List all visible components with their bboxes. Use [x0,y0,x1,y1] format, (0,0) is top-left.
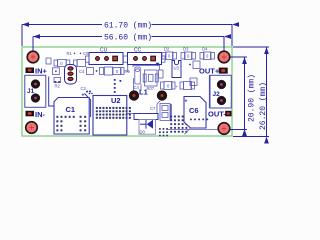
resistor R1 footprint [54,59,70,66]
dimension 26.20 (mm) vertical [233,47,269,137]
svg-text:C1: C1 [66,105,76,114]
svg-text:CC: CC [134,48,142,54]
capacitor C5 footprint [159,70,164,78]
resistor R07 [143,70,158,86]
diode D0 [139,120,156,135]
node diamond [75,98,78,101]
trimmer CU [89,53,123,65]
mounting hole top-left [27,51,39,63]
wire CC to C4 [127,65,129,73]
svg-text:IN+: IN+ [35,67,48,76]
svg-text:J2: J2 [213,91,221,98]
svg-text:U3: U3 [174,66,180,71]
svg-text:J1: J1 [27,88,35,95]
via grid A [170,116,187,133]
svg-text:C0: C0 [83,51,89,56]
svg-text:61.70 (mm): 61.70 (mm) [104,21,152,30]
capacitor C8 footprint [189,61,200,69]
node net flag [156,63,160,66]
svg-text:CU: CU [100,48,108,54]
mounting hole bottom-right [218,123,230,135]
svg-text:R9: R9 [125,69,131,74]
wire net top-mid [133,66,160,92]
resistor R5 footprint [161,82,176,90]
node vias pair [86,91,88,93]
capacitor C9 footprint [180,82,195,90]
capacitor C7 footprint [160,104,171,122]
svg-text:C2: C2 [81,86,87,91]
svg-text:IN-: IN- [35,110,46,119]
dimension 56.60 (mm) [33,37,224,52]
marker OUT- [225,111,231,117]
wire C1 to U2 [85,94,91,118]
svg-text:OUT+: OUT+ [199,67,220,76]
svg-text:C7: C7 [150,106,156,111]
dimension 20.90 (mm) vertical [229,57,247,130]
resistor R8 footprint [190,78,197,86]
svg-text:OUT-: OUT- [208,110,226,119]
capacitor C4 [135,67,141,84]
connector J1 [25,75,46,107]
via column [114,79,122,93]
U2 thermal via grid [96,107,131,119]
svg-text:D4: D4 [202,47,208,52]
trimmer CC [128,53,162,65]
inductor L1 pad right [157,91,167,101]
IC U2 [93,96,127,136]
marker OUT+ [219,68,228,74]
wire J1 to C1 [49,77,54,107]
C1 pads [56,116,86,132]
svg-text:C4: C4 [79,69,85,74]
via grid B [159,128,168,136]
svg-text:D3: D3 [183,47,189,52]
svg-text:R2: R2 [55,84,61,89]
svg-text:U2: U2 [111,96,121,105]
connector J2 [209,75,231,108]
svg-text:R1: R1 [67,51,73,56]
svg-text:26.20 (mm): 26.20 (mm) [259,82,268,130]
marker IN- [26,111,35,117]
IC U3 [172,61,181,78]
marker IN+ [26,68,35,74]
svg-text:20.90 (mm): 20.90 (mm) [248,74,257,122]
via row C [190,119,208,121]
capacitor C4 footprint [87,67,125,75]
LED / diode D1 package [65,65,77,85]
wire U2 to L1 [128,101,161,114]
mounting hole top-right [218,51,230,63]
resistor R3 footprint [46,58,51,64]
svg-text:D0: D0 [140,130,146,135]
resistor R2 footprint [53,68,60,75]
capacitor C1 [54,98,89,135]
svg-text:56.60 (mm): 56.60 (mm) [104,33,152,42]
wire C6 to OUT- [166,128,218,134]
svg-text:C6: C6 [189,106,199,115]
mounting hole bottom-left [26,122,38,134]
resistor R2b footprint [54,78,61,83]
svg-text:+: + [82,93,85,99]
dimension 61.70 (mm) [22,25,232,47]
inductor L1 pad left [129,91,139,101]
svg-text:L1: L1 [139,88,148,97]
capacitor C6 [184,97,206,129]
board outline (PCB edge) [22,47,232,136]
capacitor C0 footprint [74,59,86,66]
svg-text:+: + [185,99,188,105]
inductor L1 body [134,114,158,120]
svg-text:D2: D2 [164,47,170,52]
trimmer CU side pads [86,56,165,62]
